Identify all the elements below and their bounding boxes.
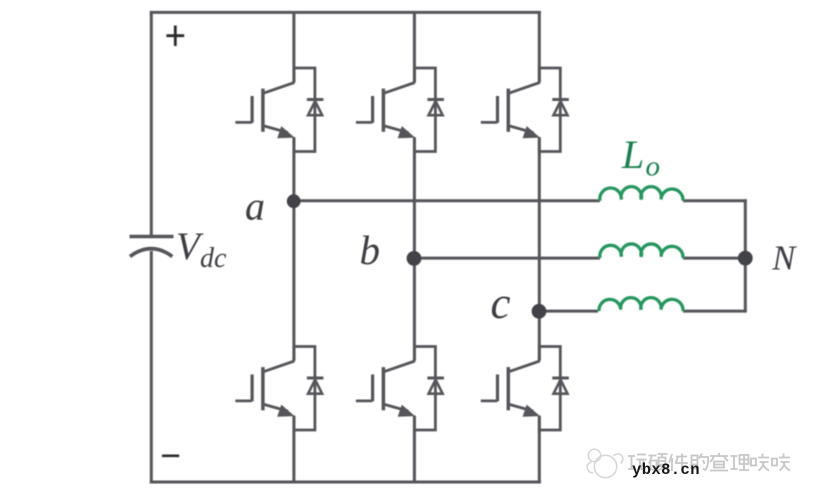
svg-text:o: o — [646, 151, 661, 183]
svg-text:c: c — [491, 278, 511, 328]
svg-text:dc: dc — [200, 243, 227, 274]
svg-text:N: N — [771, 239, 797, 277]
svg-text:L: L — [621, 132, 644, 177]
svg-text:b: b — [360, 227, 381, 273]
svg-text:ybx8.cn: ybx8.cn — [632, 461, 700, 479]
svg-text:a: a — [245, 183, 265, 228]
